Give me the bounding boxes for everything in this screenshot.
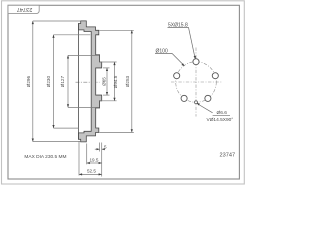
dimension Ø127 (68, 55, 99, 107)
svg-text:Ø230: Ø230 (46, 76, 51, 88)
dimension 52.5 (79, 173, 102, 175)
stud hole top (193, 59, 199, 65)
svg-text:5XØ15.8: 5XØ15.8 (168, 22, 188, 28)
dimension Ø230 (54, 35, 91, 128)
dimension Ø65 (103, 68, 110, 95)
svg-text:MAX DIA 230.5 MM: MAX DIA 230.5 MM (24, 154, 66, 160)
section view axis centerline (76, 81, 100, 83)
svg-text:52.5: 52.5 (87, 169, 96, 174)
stud hole upper left (174, 73, 180, 79)
svg-text:Ø6.6: Ø6.6 (217, 110, 228, 116)
face view vertical centerline (195, 48, 197, 117)
svg-text:Ø296: Ø296 (26, 76, 31, 88)
svg-text:19.5: 19.5 (90, 157, 99, 162)
dimension 5 (95, 148, 104, 150)
dimension Ø296 (33, 21, 81, 142)
small locating hole Ø6.6 (195, 101, 198, 104)
hub bore edge top (96, 67, 102, 69)
hub bore edge bottom (96, 94, 102, 96)
svg-text:Ø253: Ø253 (125, 75, 130, 87)
title tab box (8, 5, 39, 13)
svg-text:5: 5 (104, 145, 107, 150)
dimension 19.5 (87, 162, 102, 164)
leader 5XØ15.8 (168, 27, 196, 57)
svg-text:23747: 23747 (17, 6, 33, 12)
leader Ø6.6 note (197, 104, 213, 113)
svg-text:Ø65: Ø65 (101, 77, 106, 86)
drawing frame (8, 5, 239, 179)
dimension Ø253 (99, 30, 134, 132)
outer page border (2, 1, 245, 184)
extension lines bottom dims (79, 141, 102, 177)
dimension Ø94.5 (100, 62, 116, 101)
bolt circle Ø100 (176, 62, 217, 103)
svg-text:Ø127: Ø127 (60, 76, 65, 88)
face view horizontal centerline (171, 81, 222, 83)
svg-text:Ø94.5: Ø94.5 (113, 75, 118, 88)
open-end rim silhouette edge (77, 24, 79, 140)
brake drum section profile (78, 21, 101, 142)
leader Ø100 (155, 53, 184, 65)
svg-text:VØ14.5X90°: VØ14.5X90° (207, 117, 234, 123)
stud hole lower left (181, 95, 187, 101)
stud hole upper right (212, 73, 218, 79)
svg-text:Ø100: Ø100 (156, 48, 168, 54)
page background (0, 0, 246, 186)
stud hole lower right (205, 95, 211, 101)
svg-text:23747: 23747 (220, 153, 236, 159)
